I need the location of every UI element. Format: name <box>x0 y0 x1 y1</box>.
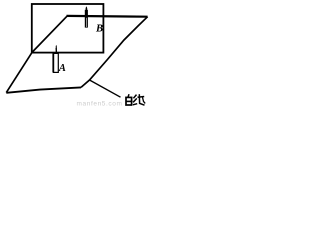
candle B flame <box>86 6 88 10</box>
paper left edge lower segment <box>6 52 32 92</box>
glass plate (vertical rectangle) <box>32 4 104 53</box>
svg-text:manfen5.com: manfen5.com <box>77 101 123 108</box>
label 白纸 (drawn strokes): 纸 <box>133 94 145 105</box>
svg-text:A: A <box>58 63 66 74</box>
candle A body <box>53 53 58 72</box>
svg-text:B: B <box>95 23 103 34</box>
label 白纸 (drawn strokes): 白 <box>126 94 132 105</box>
candle B highlight <box>85 18 88 27</box>
candle A left edge accent <box>52 54 54 73</box>
candle A wick <box>55 48 57 54</box>
paper rear edge <box>67 15 148 18</box>
leader line to paper label <box>90 80 121 97</box>
candle B body (dark) <box>85 10 88 28</box>
paper front edge <box>6 87 81 92</box>
paper left edge upper segment (seen through glass) <box>32 16 67 52</box>
candle A flame <box>56 45 57 49</box>
paper right edge <box>81 17 148 88</box>
